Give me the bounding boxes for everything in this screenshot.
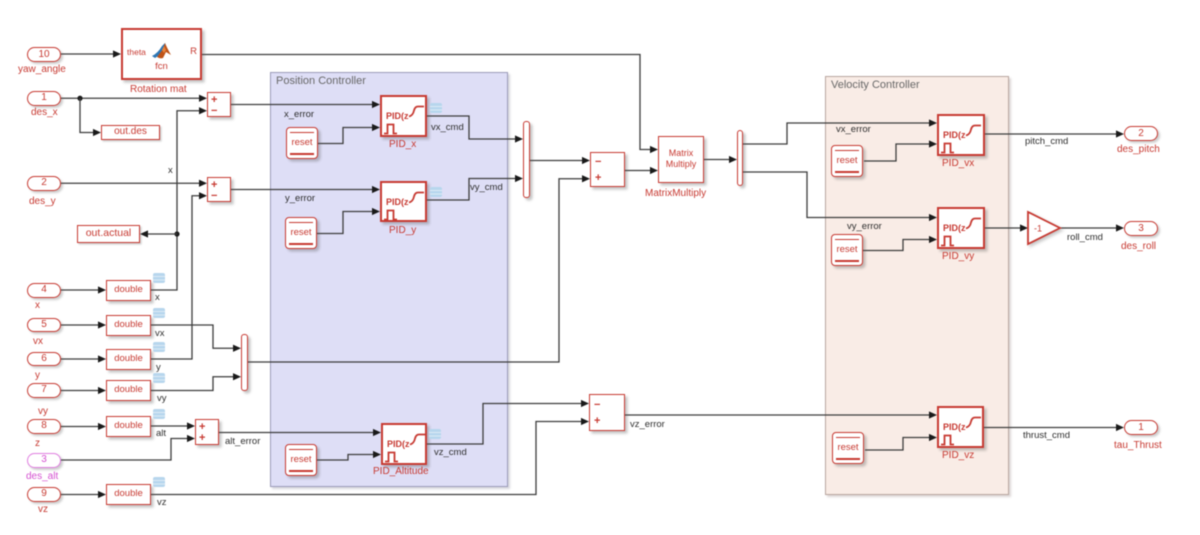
svg-text:PID(z: PID(z [387,439,410,449]
wire vx_cmd PID_x to mux1 [427,116,523,143]
signal label pitch_cmd [1025,136,1068,147]
signal label vx_cmd [431,122,464,133]
PID_Altitude block [381,423,427,465]
badge for PID_Altitude [429,429,441,439]
svg-text:PID(z: PID(z [386,111,409,121]
label PID_vy [942,251,974,262]
wire vx_error demux to PID_vx [743,119,937,144]
signal label vy_error [847,221,882,232]
input port 4 x [27,283,61,298]
label vy under port 7 [38,406,48,417]
junction on x wire [174,231,179,236]
svg-text:PID(z: PID(z [386,197,409,207]
input port 5 vx [27,318,61,333]
signal label alt_error [225,436,260,447]
wire reset2 to PID_y reset input [317,208,380,234]
wire thrust_cmd PID_vz to port tau_Thrust [984,424,1124,431]
wire middle sum to Matrix Multiply input 2 [625,167,658,174]
wire vy_error demux to PID_vy [743,172,937,221]
label x under port 4 [35,300,40,311]
sum block X error [207,92,231,117]
signal label y at double output [156,362,161,373]
badge for double vx [153,308,165,318]
svg-text:PID(z: PID(z [943,223,966,233]
label des_pitch [1117,144,1160,155]
label y under port 6 [35,370,40,381]
PID_vy block [937,207,985,249]
badge for double vy [153,373,165,383]
label z under port 8 [35,438,40,449]
sum block Y error [207,177,231,202]
wire vz_error sum to PID_vz [625,411,937,418]
wire R from fcn to Matrix Multiply input 1 [202,55,658,154]
mux1 velocity commands [523,121,530,198]
wire vy double to mux2 [151,373,241,390]
junction on des_x wire [77,96,82,101]
output port 2 des_pitch [1124,126,1158,141]
wire reset4 to PID_vx reset input [864,140,937,161]
mux2 actual xy velocities [241,334,248,391]
signal label vz_error [630,419,665,430]
wire port 7 to double vy [61,387,106,394]
input port 9 vz [27,487,61,502]
svg-text:PID(z: PID(z [943,130,966,140]
data type conversion double x [106,280,151,301]
wire reset6 to PID_vz reset input [865,434,937,450]
label PID_x [389,139,416,150]
signal label alt [156,428,166,439]
Matrix Multiply block [658,136,704,183]
input port 2 des_y [27,176,61,191]
signal label vx at double output [155,328,165,339]
svg-text:PID(z: PID(z [943,422,966,432]
label tau_Thrust [1114,440,1162,451]
wire reset1 to PID_x reset input [318,124,380,144]
wire alt_error sum to PID_Altitude [219,429,381,436]
wire port 8 to double alt [61,423,106,430]
Velocity Controller area [825,76,1009,495]
label PID_Altitude [373,466,429,477]
input port 1 des_x [27,91,61,106]
wire x signal from double x up to sum X minus input [151,107,207,290]
wire port 9 to double vz [61,491,106,498]
signal label roll_cmd [1067,232,1103,243]
signal label y_error [285,193,315,204]
data type conversion double vy [106,380,151,401]
label des_x [31,107,58,118]
wire vz_cmd PID_Altitude to vz sum minus input [427,400,589,444]
wire reset5 to PID_vy reset input [863,236,937,251]
label vz under port 9 [38,504,48,515]
signal label vz_cmd [434,447,467,458]
label yaw_angle [18,64,66,75]
input port 7 vy [27,383,61,398]
input port 3 des_alt (magenta) [27,453,61,468]
wire port 4 to double x [61,286,106,293]
wire PID_vy to gain [985,224,1028,231]
gain -1 block [1026,210,1066,250]
wire des_y to sum Y plus input [61,180,207,187]
signal label x_error [284,109,314,120]
label MatrixMultiply [645,188,706,199]
PID_y block [380,181,427,223]
reset6 for PID_vz [832,432,864,464]
Velocity Controller title [831,79,920,91]
reset1 for PID_x [286,127,318,159]
label PID_vx [942,158,974,169]
badge for double x [153,273,165,283]
PID_x block [380,95,427,137]
wire pitch_cmd PID_vx to port des_pitch [985,130,1124,137]
middle sum block (velocity error in world frame) [590,152,625,187]
vz_error sum block [589,394,625,431]
input port 6 y [27,352,61,367]
wire vx double to mux2 [151,325,241,352]
signal label thrust_cmd [1023,430,1070,441]
wire port 6 to double y [61,355,106,362]
label des_y [29,196,56,207]
data type conversion double vz [106,484,151,505]
wire des_alt port 3 to alt sum [61,435,195,460]
wire vz double to vz sum plus input [151,418,589,495]
To Workspace out.des [101,125,160,140]
input port 10 yaw_angle [27,47,61,62]
MATLAB function block fcn (Rotation mat) [121,28,202,80]
wire des_x to sum X plus input [61,95,207,102]
wire x branch to out.actual [140,230,177,237]
To Workspace out.actual [77,225,140,243]
output port 1 tau_Thrust [1124,420,1158,435]
label des_alt [26,471,58,482]
wire reset3 to PID_Altitude reset input [317,451,381,460]
wire roll_cmd gain to port des_roll [1060,224,1124,231]
wire des_x branch to out.des [80,98,101,136]
demux body velocity errors [737,130,743,186]
signal label vy at double output [157,393,167,404]
reset4 for PID_vx [831,145,863,177]
wire yaw_angle to fcn [61,50,121,57]
signal label x on vertical wire [168,165,173,176]
badge for PID_y [430,187,442,197]
wire vy_cmd PID_y to mux1 [427,175,523,200]
wire y_error sum Y to PID_y [231,186,380,193]
badge for double vz [153,477,165,487]
wire mux2 to middle sum plus input [248,175,590,362]
badge for double y [153,342,165,352]
data type conversion double alt [106,416,151,437]
wire alt double to alt sum [151,422,195,429]
input port 8 z [27,419,61,434]
badge for PID_x [430,103,442,113]
PID_vz block [937,406,984,448]
label Rotation mat [130,84,187,95]
label vx under port 5 [33,336,43,347]
PID_vx block [937,114,985,156]
reset3 for PID_Altitude [285,444,317,476]
wire Matrix Multiply to demux [704,156,737,163]
signal label x at double output [155,292,160,303]
signal label vx_error [836,124,871,135]
wire x_error sum X to PID_x [231,101,380,108]
wire port 5 to double vx [61,321,106,328]
reset2 for PID_y [285,217,317,249]
sum block alt_error [195,419,219,445]
Position Controller title [276,75,366,87]
svg-text:-1: -1 [1034,224,1042,234]
badge for double alt [153,409,165,419]
reset5 for PID_vy [831,234,863,266]
wire y signal from double y up to sum Y minus input [151,192,207,359]
label PID_y [389,225,416,236]
data type conversion double y [106,349,151,370]
signal label vy_cmd [470,182,503,193]
output port 3 des_roll [1124,221,1158,236]
label PID_vz [942,450,974,461]
signal label vz at double output [157,497,167,508]
label des_roll [1121,241,1156,252]
Position Controller area [270,72,508,487]
data type conversion double vx [106,315,151,336]
wire mux1 to middle sum minus input [530,157,590,164]
